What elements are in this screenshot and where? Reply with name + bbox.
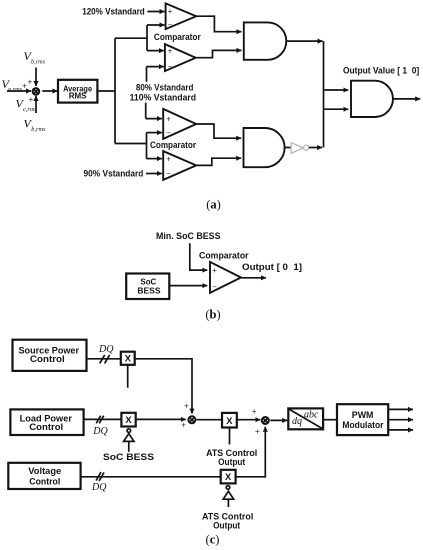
svg-text:90% Vstandard: 90% Vstandard [84, 169, 144, 179]
svg-text:Control: Control [29, 476, 60, 486]
svg-text:−: − [168, 21, 173, 30]
svg-text:Control: Control [29, 422, 63, 432]
svg-text:110% Vstandard: 110% Vstandard [130, 93, 197, 103]
svg-text:+: + [22, 82, 27, 91]
svg-text:SoC: SoC [140, 278, 156, 287]
svg-text:dq: dq [292, 416, 302, 427]
svg-text:+: + [28, 77, 33, 86]
svg-text:(c): (c) [206, 533, 220, 547]
svg-text:Comparator: Comparator [199, 251, 249, 261]
svg-text:DQ: DQ [91, 482, 107, 493]
svg-text:DQ: DQ [98, 344, 114, 355]
svg-text:Min. SoC BESS: Min. SoC BESS [156, 231, 221, 241]
svg-text:SoC BESS: SoC BESS [103, 452, 154, 462]
svg-text:DQ: DQ [92, 426, 108, 437]
svg-text:b,rms: b,rms [31, 59, 46, 66]
svg-text:+: + [29, 95, 34, 104]
svg-text:RMS: RMS [69, 91, 87, 100]
svg-text:X: X [125, 354, 132, 364]
svg-text:+: + [166, 115, 171, 124]
svg-text:X: X [225, 472, 232, 482]
svg-text:+: + [166, 155, 171, 164]
svg-text:Output: Output [218, 457, 245, 467]
svg-text:X: X [226, 416, 233, 426]
svg-text:Modulator: Modulator [342, 420, 383, 430]
svg-text:PWM: PWM [352, 410, 374, 420]
svg-text:−: − [166, 128, 171, 137]
svg-text:(b): (b) [205, 308, 220, 322]
svg-text:b,rms: b,rms [31, 126, 46, 133]
svg-text:+: + [168, 7, 173, 16]
svg-text:Output [ 0 1]: Output [ 0 1] [242, 262, 302, 272]
svg-text:Control: Control [30, 354, 65, 364]
svg-text:BESS: BESS [137, 287, 161, 296]
svg-text:+: + [255, 427, 260, 436]
svg-text:a,rms: a,rms [8, 86, 23, 93]
svg-text:X: X [125, 415, 132, 425]
svg-text:−: − [166, 169, 171, 178]
svg-text:−: − [212, 282, 217, 291]
svg-text:80% Vstandard: 80% Vstandard [136, 83, 194, 93]
svg-text:Voltage: Voltage [28, 466, 61, 476]
svg-text:+: + [184, 402, 189, 411]
svg-text:abc: abc [304, 410, 319, 421]
svg-text:+: + [252, 407, 257, 416]
svg-text:Comparator: Comparator [154, 32, 201, 42]
svg-text:−: − [168, 63, 173, 72]
svg-text:+: + [168, 47, 173, 56]
svg-text:Comparator: Comparator [150, 140, 196, 150]
svg-text:120% Vstandard: 120% Vstandard [82, 7, 145, 17]
svg-text:+: + [181, 420, 186, 429]
svg-text:Output Value [ 1 0]: Output Value [ 1 0] [343, 65, 419, 75]
svg-text:(a): (a) [206, 198, 221, 212]
svg-text:Output: Output [213, 520, 240, 530]
svg-text:+: + [212, 266, 217, 275]
